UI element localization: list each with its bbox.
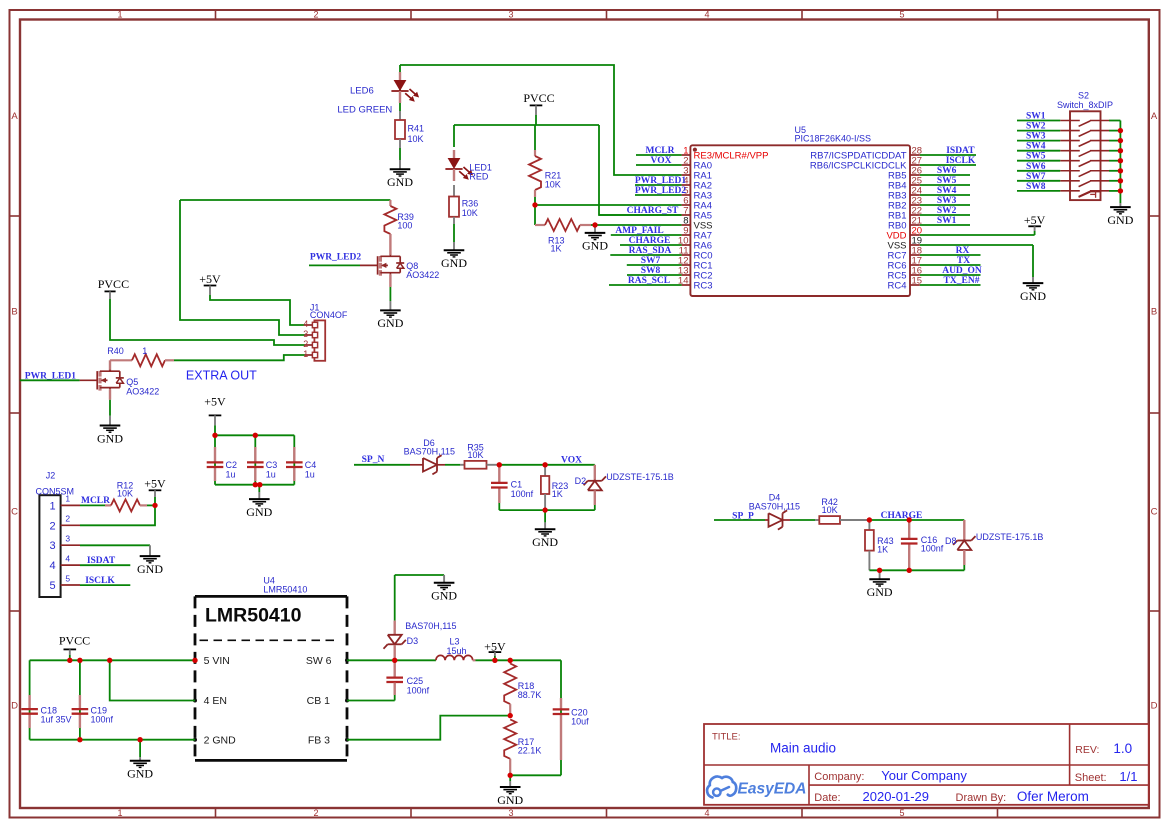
junction GND stem — [877, 568, 882, 573]
capacitor C18 — [21, 695, 71, 728]
svg-text:D2: D2 — [575, 476, 587, 486]
svg-text:AMP_FAIL: AMP_FAIL — [615, 226, 663, 236]
transistor Q5 — [97, 370, 159, 397]
svg-text:SP_N: SP_N — [362, 455, 385, 465]
svg-text:R36: R36 — [462, 199, 479, 209]
svg-text:4: 4 — [303, 319, 308, 329]
resistor R35 — [460, 443, 499, 469]
wire U5 pin 19 VSS to GND — [920, 245, 1033, 277]
resistor R12 — [105, 480, 147, 511]
svg-text:D8: D8 — [945, 536, 957, 546]
wire net SW5 from U5 — [920, 184, 970, 186]
wire S2 common bus — [1119, 121, 1121, 204]
svg-text:EXTRA OUT: EXTRA OUT — [186, 368, 257, 382]
wire D4 to R42 — [783, 519, 816, 521]
svg-text:1.0: 1.0 — [1113, 741, 1132, 756]
net label ISCLK — [946, 156, 976, 166]
wire C19 branch — [79, 660, 81, 739]
svg-text:PVCC: PVCC — [98, 277, 129, 291]
svg-text:ISDAT: ISDAT — [87, 556, 116, 566]
svg-text:GND: GND — [431, 589, 457, 603]
wire net SW6 to S2 — [1017, 170, 1060, 172]
svg-text:C: C — [1151, 507, 1158, 518]
svg-text:SW4: SW4 — [1026, 142, 1046, 152]
svg-text:D: D — [11, 701, 18, 712]
wire PVCC rail to LED1 and CHARG_ST corner — [454, 115, 599, 150]
svg-text:2: 2 — [65, 514, 70, 524]
power flag PVCC near J1 — [98, 277, 129, 299]
wire C4 vertical — [293, 435, 295, 484]
svg-text:5: 5 — [899, 9, 904, 19]
junction at R21 bottom — [532, 202, 537, 207]
svg-text:J2: J2 — [46, 471, 56, 481]
net label SW1 — [937, 216, 957, 226]
net label SW7 — [641, 256, 661, 266]
svg-text:LED6: LED6 — [350, 85, 374, 96]
ground under R36 — [441, 242, 467, 270]
svg-text:5: 5 — [49, 580, 55, 592]
svg-text:TX_EN#: TX_EN# — [944, 276, 980, 286]
wire PWR_LED1 to Q5 gate — [20, 379, 98, 381]
net label SW6 — [1026, 162, 1046, 172]
net label SW2 — [1026, 122, 1046, 132]
svg-text:GND: GND — [497, 793, 523, 807]
wire Q8 source to GND — [389, 274, 391, 301]
wire Q5 source to GND — [109, 389, 111, 416]
svg-text:CON4OF: CON4OF — [310, 310, 348, 320]
svg-text:1: 1 — [49, 500, 55, 512]
junction on S2 bus — [1118, 158, 1123, 163]
junction on S2 bus — [1118, 148, 1123, 153]
svg-text:GND: GND — [246, 505, 272, 519]
wire net TX from U5 — [920, 264, 981, 266]
ground under R23 — [532, 510, 558, 549]
wire S2 output to bus — [1109, 140, 1120, 142]
svg-text:GND: GND — [137, 562, 163, 576]
svg-text:1: 1 — [142, 346, 147, 356]
connector J1 CON4OF — [303, 303, 348, 361]
net label AUD_ON — [942, 266, 982, 276]
wire net SW7 to U5 — [627, 264, 682, 266]
svg-text:1u: 1u — [305, 469, 315, 479]
svg-text:TX: TX — [957, 256, 970, 266]
svg-text:3: 3 — [303, 329, 308, 339]
svg-text:B: B — [1151, 307, 1157, 318]
svg-text:RC3: RC3 — [694, 281, 713, 292]
svg-text:MCLR: MCLR — [645, 146, 674, 156]
svg-text:SW3: SW3 — [1026, 132, 1046, 142]
wire net SW5 to S2 — [1017, 160, 1060, 162]
svg-text:4: 4 — [65, 553, 70, 563]
svg-text:AO3422: AO3422 — [406, 270, 439, 280]
junction on S2 bus — [1118, 168, 1123, 173]
capacitor C3 — [247, 447, 277, 481]
net label VOX — [651, 156, 672, 166]
svg-text:5 VIN: 5 VIN — [204, 655, 230, 667]
net label SP_N — [362, 455, 385, 465]
wire net ISDAT from U5 — [920, 154, 976, 156]
diode D4 BAS70H,115 — [749, 493, 800, 530]
wire R40 to J1 pin 1 — [174, 355, 305, 360]
svg-text:SW4: SW4 — [937, 186, 957, 196]
ground at U5 pin 19 — [1020, 277, 1046, 303]
wire net SW1 from U5 — [920, 224, 970, 226]
svg-text:SW5: SW5 — [937, 176, 957, 186]
ground under U4 input — [127, 740, 153, 781]
svg-text:LMR50410: LMR50410 — [263, 585, 307, 595]
wire J1 net to R39 top — [180, 199, 390, 201]
svg-text:RED: RED — [469, 171, 489, 181]
svg-text:PWR_LED2: PWR_LED2 — [310, 252, 361, 262]
svg-text:RAS_SDA: RAS_SDA — [629, 246, 672, 256]
svg-text:SW7: SW7 — [641, 256, 661, 266]
svg-text:2020-01-29: 2020-01-29 — [863, 789, 930, 804]
wire PVCC input rail — [30, 655, 195, 660]
svg-text:REV:: REV: — [1075, 744, 1099, 756]
svg-text:R40: R40 — [107, 346, 124, 356]
resistor R40 — [107, 346, 174, 366]
svg-text:ISCLK: ISCLK — [85, 576, 115, 586]
svg-text:5: 5 — [899, 808, 904, 818]
svg-text:4: 4 — [704, 808, 709, 818]
wire C18 branch — [29, 660, 31, 739]
wire C20 branch — [560, 660, 562, 775]
net label RAS_SCL — [628, 276, 670, 286]
wire net SW1 to S2 — [1017, 120, 1060, 122]
svg-text:SW2: SW2 — [937, 206, 957, 216]
svg-text:B: B — [11, 307, 17, 318]
net label PWR_LED2 — [310, 252, 361, 262]
svg-text:SW8: SW8 — [641, 266, 661, 276]
svg-text:CB 1: CB 1 — [307, 695, 331, 707]
capacitor C16 — [901, 520, 944, 570]
svg-text:SW1: SW1 — [1026, 112, 1046, 122]
wire net VOX to U5 — [636, 164, 682, 166]
svg-text:1: 1 — [65, 494, 70, 504]
wire PVCC line down to U5 pin 7 — [599, 125, 682, 215]
svg-text:Sheet:: Sheet: — [1075, 772, 1107, 784]
svg-text:100nf: 100nf — [511, 489, 534, 499]
svg-text:PIC18F26K40-I/SS: PIC18F26K40-I/SS — [795, 134, 872, 144]
resistor R42 — [815, 497, 869, 524]
svg-text:4: 4 — [704, 9, 709, 19]
ground under Q8 — [377, 301, 403, 330]
svg-text:100nf: 100nf — [91, 714, 114, 724]
wire capacitor top rail — [215, 434, 294, 436]
wire SP_N to D6 — [354, 464, 423, 466]
net label VOX — [561, 456, 582, 466]
wire net SW8 to U5 — [627, 274, 682, 276]
svg-text:10K: 10K — [545, 180, 561, 190]
svg-text:LMR50410: LMR50410 — [205, 604, 302, 626]
junction C16 bottom — [907, 568, 912, 573]
junction at R43 top — [867, 517, 872, 522]
net label CHARGE — [629, 236, 671, 246]
wire R36 to GND — [453, 224, 455, 242]
svg-text:CHARGE: CHARGE — [629, 236, 671, 246]
resistor R17 — [504, 719, 541, 775]
net label TX — [957, 256, 970, 266]
svg-text:D: D — [1151, 701, 1158, 712]
capacitor C2 — [207, 447, 237, 481]
wire bottom rail CHARGE group — [869, 565, 964, 570]
wire LED6 cathode to R41 — [399, 65, 401, 111]
svg-text:1u: 1u — [226, 469, 236, 479]
net label MCLR — [645, 146, 674, 156]
net label SW8 — [641, 266, 661, 276]
junction +5V / R12 / pin2 — [152, 503, 157, 508]
net label SW6 — [937, 166, 957, 176]
svg-text:Date:: Date: — [814, 792, 840, 804]
junction at U4 VIN pin — [192, 658, 197, 663]
svg-text:SW6: SW6 — [1026, 162, 1046, 172]
net label PWR_LED1 at Q5 — [25, 371, 76, 381]
svg-text:SW7: SW7 — [1026, 172, 1046, 182]
wire +5V to capacitor rail — [214, 425, 216, 435]
svg-text:GND: GND — [441, 256, 467, 270]
junction +5V rail at C2 — [212, 433, 217, 438]
wire SP_P to D4 — [714, 519, 769, 521]
net label TX_EN# — [944, 276, 980, 286]
svg-text:SW5: SW5 — [1026, 152, 1046, 162]
svg-text:R41: R41 — [408, 124, 425, 134]
wire +5V to J1 pin 4 — [210, 295, 305, 325]
svg-text:GND: GND — [387, 175, 413, 189]
wire divider bottom rail — [510, 774, 561, 776]
junction at D3 — [392, 658, 397, 663]
junction C19 bottom — [77, 737, 82, 742]
net label SP_P — [732, 512, 754, 522]
wire J2 pin 4 ISDAT — [80, 564, 130, 566]
wire EN branch — [110, 660, 195, 700]
svg-text:Drawn By:: Drawn By: — [956, 792, 1007, 804]
svg-text:10K: 10K — [117, 489, 133, 499]
svg-text:2: 2 — [313, 9, 318, 19]
svg-text:Main audio: Main audio — [770, 741, 836, 756]
junction PVCC stem — [67, 658, 72, 663]
svg-text:A: A — [1151, 111, 1158, 122]
junction +5V stem at L3 — [492, 658, 497, 663]
svg-text:1K: 1K — [551, 244, 562, 254]
wire net SW2 from U5 — [920, 214, 970, 216]
svg-text:BAS70H,115: BAS70H,115 — [404, 447, 455, 457]
inductor L3 — [436, 637, 476, 661]
svg-text:PWR_LED1: PWR_LED1 — [635, 176, 686, 186]
wire U4 SW to L3 and D3 node — [347, 659, 436, 661]
wire net RAS_SDA to U5 — [610, 254, 681, 256]
wire PVCC to J1 pin 2 — [110, 299, 305, 345]
junction R18 top — [508, 658, 513, 663]
ground at J2 pin 3 — [137, 545, 163, 576]
wire U4 FB to divider node — [347, 716, 510, 740]
wire net RX from U5 — [920, 254, 981, 256]
svg-text:4 EN: 4 EN — [204, 695, 227, 707]
transistor Q8 — [378, 255, 440, 280]
wire S2 output to bus — [1109, 180, 1120, 182]
svg-text:VOX: VOX — [561, 456, 582, 466]
wire net RAS_SCL to U5 — [609, 284, 682, 286]
svg-text:SW2: SW2 — [1026, 122, 1046, 132]
junction R17 bottom — [508, 773, 513, 778]
net label SW3 — [1026, 132, 1046, 142]
svg-text:RAS_SCL: RAS_SCL — [628, 276, 670, 286]
diode D6 BAS70H,115 — [404, 438, 455, 474]
svg-text:15uh: 15uh — [446, 646, 466, 656]
svg-text:3: 3 — [49, 540, 55, 552]
ground under R41 — [387, 160, 413, 189]
capacitor C1 — [491, 465, 534, 503]
svg-text:10uf: 10uf — [571, 716, 589, 726]
svg-text:+5V: +5V — [1024, 213, 1046, 227]
svg-text:FB 3: FB 3 — [308, 734, 330, 746]
zener diode D2 UDZSTE-175.1B — [575, 465, 674, 505]
resistor R21 — [529, 150, 561, 197]
svg-text:Switch_8xDIP: Switch_8xDIP — [1057, 100, 1113, 110]
wire U5 pin 20 to +5V — [920, 231, 1035, 235]
svg-text:4: 4 — [49, 560, 55, 572]
net label RX — [956, 246, 970, 256]
wire J2 pin 5 ISCLK — [80, 584, 130, 586]
wire D3 up to GND corner — [395, 575, 444, 621]
net label RAS_SDA — [629, 246, 672, 256]
svg-text:GND: GND — [532, 535, 558, 549]
wire S2 output to bus — [1109, 120, 1120, 122]
junction EN branch — [107, 658, 112, 663]
svg-text:GND: GND — [582, 239, 608, 253]
svg-text:GND: GND — [1107, 213, 1133, 227]
wire S2 output to bus — [1109, 170, 1120, 172]
svg-text:UDZSTE-175.1B: UDZSTE-175.1B — [606, 472, 674, 482]
svg-text:UDZSTE-175.1B: UDZSTE-175.1B — [976, 532, 1044, 542]
wire PWR_LED2 to Q8 gate — [309, 264, 378, 266]
wire S2 output to bus — [1109, 130, 1120, 132]
power flag PVCC at C18 — [59, 634, 90, 655]
junction bottom rail at C3 — [253, 482, 263, 487]
svg-text:BAS70H,115: BAS70H,115 — [749, 502, 800, 512]
wire VOX node rail — [499, 464, 595, 466]
power flag +5V above C2 — [204, 394, 226, 425]
wire C25 to U4 CB pin — [347, 695, 395, 701]
net label MCLR at J2 — [81, 496, 110, 506]
power flag +5V at J2 — [144, 476, 166, 505]
svg-text:1u: 1u — [266, 469, 276, 479]
ground at U5 pin 8 — [582, 225, 608, 253]
wire S2 output to bus — [1109, 150, 1120, 152]
net label SW1 — [1026, 112, 1046, 122]
title block — [704, 724, 1149, 805]
svg-text:2: 2 — [303, 339, 308, 349]
wire net PWR_LED2 to U5 — [635, 194, 682, 196]
svg-text:Ofer Merom: Ofer Merom — [1017, 789, 1089, 804]
wire net SW7 to S2 — [1017, 180, 1060, 182]
wire D6 to R35 — [437, 464, 460, 466]
ground under C3 — [246, 485, 272, 519]
wire net SW4 to S2 — [1017, 150, 1060, 152]
junction at R23 bottom — [542, 507, 547, 512]
wire +5V node to J2 pin 2 — [80, 505, 155, 525]
net label SW4 — [1026, 142, 1046, 152]
svg-text:SW6: SW6 — [937, 166, 957, 176]
svg-text:+5V: +5V — [144, 476, 166, 490]
net label PWR_LED1 — [635, 176, 686, 186]
wire net SW6 from U5 — [920, 174, 970, 176]
wire L3 to +5V rail — [476, 659, 562, 661]
wire ground rail to U4 pin 2 — [30, 739, 195, 741]
svg-text:10K: 10K — [467, 450, 483, 460]
ground under CHARGE group — [867, 570, 893, 599]
zener diode D3 BAS70H,115 — [384, 621, 457, 678]
LED LED1 — [445, 150, 492, 181]
wire net ISCLK from U5 — [920, 164, 976, 166]
capacitor C4 — [286, 447, 316, 481]
svg-text:88.7K: 88.7K — [518, 690, 542, 700]
svg-text:+5V: +5V — [204, 394, 226, 408]
svg-text:3: 3 — [508, 808, 513, 818]
text EXTRA OUT — [186, 368, 257, 382]
wire R41 to GND — [399, 148, 401, 160]
svg-text:EasyEDA: EasyEDA — [738, 781, 807, 798]
net label SW8 — [1026, 182, 1046, 192]
wire bottom rail VOX group — [499, 503, 595, 510]
net label SW2 — [937, 206, 957, 216]
svg-text:AUD_ON: AUD_ON — [942, 266, 982, 276]
capacitor C19 — [72, 695, 114, 728]
wire net CHARGE to U5 — [620, 244, 682, 246]
svg-text:GND: GND — [867, 585, 893, 599]
svg-text:Your Company: Your Company — [881, 768, 967, 783]
net label SW3 — [937, 196, 957, 206]
net label CHARG_ST — [627, 206, 679, 216]
net label CHARGE at D4 row — [881, 511, 923, 521]
wire CHARGE node rail — [869, 519, 964, 521]
junction on S2 bus — [1118, 178, 1123, 183]
svg-text:10K: 10K — [822, 505, 838, 515]
svg-text:10K: 10K — [462, 208, 478, 218]
LED LED6 — [337, 72, 419, 116]
junction feedback node — [508, 713, 513, 718]
svg-text:1uf 35V: 1uf 35V — [41, 714, 72, 724]
ground under Q5 — [97, 416, 123, 446]
resistor R43 — [865, 520, 894, 570]
EasyEDA logo — [707, 777, 806, 798]
net label SW5 — [1026, 152, 1046, 162]
wire S2 output to bus — [1109, 160, 1120, 162]
svg-text:ISCLK: ISCLK — [946, 156, 976, 166]
svg-text:CHARG_ST: CHARG_ST — [627, 206, 679, 216]
wire Q5 drain to R40 — [109, 360, 111, 371]
net label ISCLK at J2 — [85, 576, 115, 586]
svg-text:PVCC: PVCC — [59, 634, 90, 648]
svg-text:10K: 10K — [408, 134, 424, 144]
svg-text:LED GREEN: LED GREEN — [337, 105, 392, 116]
svg-text:AO3422: AO3422 — [126, 387, 159, 397]
wire net SW3 from U5 — [920, 204, 970, 206]
junction on S2 bus — [1118, 128, 1123, 133]
wire S2 output to bus — [1109, 190, 1120, 192]
junction R13 / GND — [592, 222, 597, 227]
power flag +5V near J1 — [199, 272, 221, 295]
svg-text:GND: GND — [127, 767, 153, 781]
svg-text:SW 6: SW 6 — [306, 655, 332, 667]
svg-text:VOX: VOX — [651, 156, 672, 166]
svg-text:SW8: SW8 — [1026, 182, 1046, 192]
svg-text:A: A — [11, 111, 18, 122]
svg-text:3: 3 — [65, 534, 70, 544]
junction at R23 top — [542, 462, 547, 467]
wire net V_BAT from LED6 to U5 pin 3 — [400, 65, 682, 175]
IC U5 PIC18F26K40-I/SS — [678, 125, 922, 296]
svg-text:PWR_LED2: PWR_LED2 — [635, 186, 686, 196]
